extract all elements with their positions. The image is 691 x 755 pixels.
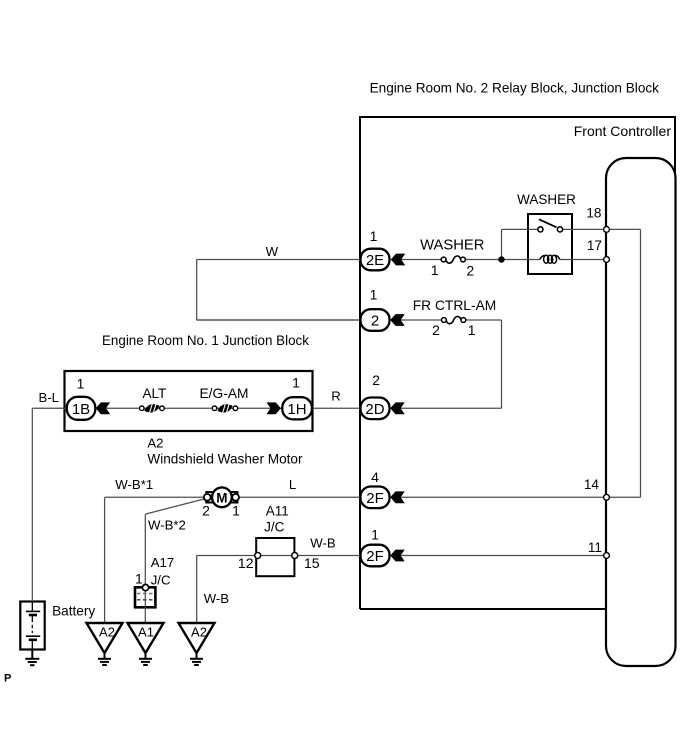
connector 2F-1 oval <box>361 545 390 567</box>
svg-text:J/C: J/C <box>264 520 285 535</box>
svg-text:14: 14 <box>584 477 600 492</box>
svg-text:L: L <box>289 477 296 492</box>
svg-text:W-B: W-B <box>204 591 230 606</box>
junction connector A17 box <box>135 587 155 607</box>
svg-text:W: W <box>266 244 279 259</box>
fusible link ALT <box>140 403 165 414</box>
wire branch to relay switch <box>502 228 539 230</box>
front controller body (rounded rect) <box>606 158 676 666</box>
ground hatch A2 second <box>190 653 203 665</box>
svg-text:1: 1 <box>371 526 379 542</box>
pin 1 circle of A17 <box>142 585 148 591</box>
connector 1H oval <box>282 397 312 419</box>
svg-text:1: 1 <box>232 503 240 519</box>
fuse WASHER circles and element <box>446 256 461 263</box>
svg-text:Battery: Battery <box>52 604 95 619</box>
svg-text:E/G-AM: E/G-AM <box>199 386 248 401</box>
svg-text:FR CTRL-AM: FR CTRL-AM <box>413 298 497 313</box>
connector 2E oval <box>361 249 390 271</box>
svg-text:W-B: W-B <box>310 535 336 550</box>
wire row W-B*1 motor L 2F 14 <box>105 496 641 498</box>
wire row 12 W-B 2F 11 <box>197 555 607 557</box>
svg-text:1: 1 <box>135 570 143 586</box>
wire row 1B ALT 1H R 2D <box>32 407 501 409</box>
relay coil <box>540 255 560 263</box>
wire FR CTRL-AM row <box>197 319 443 321</box>
svg-text:W-B*2: W-B*2 <box>148 518 186 533</box>
relay switch contact left <box>538 227 543 232</box>
junction dot node <box>498 256 504 262</box>
svg-text:A11: A11 <box>266 504 289 519</box>
svg-text:WASHER: WASHER <box>517 192 576 207</box>
washer motor M <box>204 487 239 507</box>
svg-text:P: P <box>4 673 11 685</box>
wire W-B*2 diagonal <box>145 499 206 515</box>
svg-text:1: 1 <box>370 287 378 303</box>
svg-text:15: 15 <box>304 555 320 571</box>
wire battery vertical B-L <box>31 408 33 601</box>
wire through A11 <box>256 555 295 557</box>
svg-text:1: 1 <box>77 375 85 391</box>
wire FR loop vertical <box>501 320 503 408</box>
connector 2D oval <box>361 398 390 420</box>
svg-text:Windshield Washer Motor: Windshield Washer Motor <box>147 452 303 467</box>
ground hatch A2 first <box>98 653 111 665</box>
arrow into 2F-1 <box>390 550 404 562</box>
battery ground <box>25 650 39 666</box>
pin 12 circle of A11 <box>255 553 261 559</box>
svg-text:1B: 1B <box>72 401 90 418</box>
pin 15 circle of A11 <box>292 553 298 559</box>
wire switch to pin 18 and loop right <box>563 228 641 230</box>
connector 2F-4 oval <box>361 487 390 509</box>
svg-text:1: 1 <box>431 262 439 278</box>
wire branch vertical at junction <box>501 229 503 259</box>
ground triangle A2 (first) <box>87 623 123 653</box>
svg-text:12: 12 <box>238 555 254 571</box>
wire W vertical <box>196 260 198 321</box>
arrow into 1B <box>96 402 110 414</box>
arrow into 2F-4 <box>390 491 404 503</box>
svg-text:B-L: B-L <box>38 390 59 405</box>
wire coil to pin 17 <box>560 259 604 261</box>
svg-text:2: 2 <box>432 322 440 338</box>
svg-text:ALT: ALT <box>143 386 167 401</box>
wire pin12 vertical to ground A2 <box>196 556 198 624</box>
junction block No.1 box <box>65 371 313 431</box>
pin 18 circle <box>604 227 610 233</box>
wire washer fuse to relay coil <box>465 259 541 261</box>
svg-text:Engine Room No. 2 Relay Block,: Engine Room No. 2 Relay Block, Junction … <box>370 80 660 95</box>
svg-text:2F: 2F <box>366 548 384 565</box>
svg-text:17: 17 <box>587 238 602 253</box>
svg-text:A17: A17 <box>151 555 174 570</box>
connector 1B oval <box>67 397 96 420</box>
ground triangle A1 <box>128 623 164 653</box>
svg-text:A2: A2 <box>99 625 115 640</box>
wire W bottom into connector 2 <box>197 319 361 321</box>
svg-text:WASHER: WASHER <box>420 237 484 253</box>
wire 2E to washer fuse <box>391 259 442 261</box>
pin 17 circle <box>604 257 610 263</box>
svg-text:2F: 2F <box>366 490 384 507</box>
svg-text:1: 1 <box>292 375 300 391</box>
ground triangle A2 (second) <box>179 623 215 653</box>
battery box <box>20 602 44 650</box>
ground hatch A1 <box>139 653 152 665</box>
fusible link E/G-AM <box>212 403 238 414</box>
relay switch contact right <box>557 227 562 232</box>
arrow into 2E <box>391 254 405 266</box>
arrow into 2D <box>390 402 404 414</box>
svg-text:2: 2 <box>466 263 474 279</box>
svg-text:A2: A2 <box>147 436 163 451</box>
svg-text:Front Controller: Front Controller <box>574 123 672 139</box>
svg-text:A1: A1 <box>138 625 154 640</box>
battery internals <box>26 602 40 650</box>
wire W-B*1 vertical to ground A2 <box>104 497 106 622</box>
svg-text:2E: 2E <box>366 252 384 269</box>
svg-text:2: 2 <box>371 313 379 330</box>
relay WASHER box <box>528 214 572 274</box>
pin 11 circle <box>604 553 610 559</box>
wire loop 18 to 14 vertical <box>640 229 642 497</box>
svg-text:Engine Room No. 1 Junction Blo: Engine Room No. 1 Junction Block <box>102 333 309 348</box>
arrow into 2 <box>390 314 404 326</box>
svg-text:11: 11 <box>588 540 602 555</box>
svg-text:R: R <box>331 388 341 403</box>
svg-text:2: 2 <box>372 372 380 388</box>
wire W: 2E to loop left <box>197 259 361 261</box>
svg-text:2D: 2D <box>365 401 384 418</box>
svg-text:1: 1 <box>370 228 378 244</box>
wire W-B*2 vertical through A17 <box>144 514 146 622</box>
svg-text:J/C: J/C <box>151 573 171 588</box>
svg-text:1H: 1H <box>287 401 306 418</box>
svg-text:2: 2 <box>202 503 210 519</box>
relay block outer box <box>360 117 675 609</box>
svg-text:W-B*1: W-B*1 <box>115 477 153 492</box>
svg-text:A2: A2 <box>191 625 207 640</box>
svg-text:1: 1 <box>468 322 476 338</box>
connector 2 oval <box>361 309 390 331</box>
svg-text:4: 4 <box>371 469 379 485</box>
fuse FR CTRL-AM circles and element <box>446 316 461 323</box>
svg-text:18: 18 <box>586 206 601 221</box>
pin 14 circle <box>604 494 610 500</box>
junction connector A11 box <box>256 538 294 576</box>
arrow into 1H <box>267 402 281 414</box>
svg-text:M: M <box>216 490 227 505</box>
relay switch blade <box>539 219 557 227</box>
